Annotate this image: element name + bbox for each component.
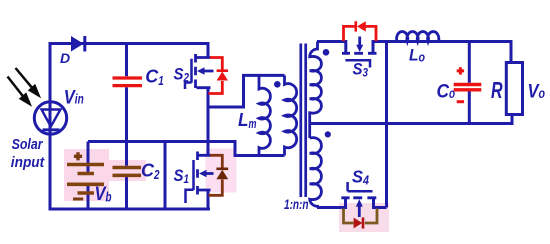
highlight behind battery Vb	[64, 149, 109, 201]
capacitor C2	[113, 142, 142, 210]
svg-text:Co: Co	[437, 82, 456, 103]
transistor S4	[317, 182, 387, 217]
wire: bottom rail	[49, 208, 211, 211]
polarity dot secondary bottom	[325, 131, 331, 137]
svg-text:1:n:n: 1:n:n	[284, 196, 309, 212]
wire: top output rail S3 to R	[373, 42, 511, 64]
transformer secondary bottom winding	[310, 138, 322, 208]
body diode of S4	[344, 209, 378, 229]
solar input arrows	[8, 68, 39, 104]
body diode of S2	[209, 58, 229, 94]
inductor Lo	[397, 32, 439, 42]
body diode of S3	[344, 21, 377, 41]
wire: switch node to primary top	[208, 75, 285, 107]
polarity dot primary	[274, 81, 281, 88]
wire: S3 source / S4 source vertical link	[385, 42, 388, 208]
svg-text:D: D	[60, 50, 70, 66]
wire: secondary top to S3 drain	[317, 42, 346, 53]
transformer core	[301, 44, 306, 198]
resistor R	[506, 63, 522, 115]
svg-text:S3: S3	[353, 60, 369, 80]
svg-text:Lo: Lo	[409, 46, 425, 65]
battery Vb	[67, 142, 104, 210]
svg-text:Vo: Vo	[528, 81, 546, 103]
capacitor C1	[113, 44, 143, 142]
svg-text:Vb: Vb	[95, 184, 112, 205]
wire: mid rail from battery to primary bottom	[88, 142, 285, 156]
svg-text:S1: S1	[174, 166, 190, 186]
body diode of S1	[209, 155, 229, 195]
solar cell symbol Vin	[34, 102, 66, 134]
highlight behind S4 body diode	[339, 203, 389, 232]
diode D	[71, 36, 85, 52]
highlight behind S1 body diode	[206, 149, 237, 193]
wire: S1 source drop	[207, 190, 210, 209]
svg-text:S4: S4	[352, 167, 369, 188]
transistor S3	[342, 37, 377, 68]
svg-text:input: input	[11, 154, 45, 171]
transformer secondary top winding	[310, 42, 322, 139]
svg-text:Solar: Solar	[12, 136, 44, 153]
svg-text:C2: C2	[141, 161, 160, 183]
transistor S1	[186, 152, 214, 204]
inductor Lm	[259, 75, 270, 155]
svg-text:Vin: Vin	[64, 88, 84, 109]
highlight behind capacitor C2	[108, 160, 146, 181]
svg-text:C1: C1	[145, 67, 164, 89]
svg-text:Lm: Lm	[238, 109, 257, 131]
svg-text:S2: S2	[174, 65, 190, 85]
wire: center tap rail to output return	[310, 115, 512, 124]
wire: S2 source to S1 drain vertical	[207, 88, 210, 155]
transistor S2	[185, 54, 214, 89]
transformer primary winding	[285, 75, 297, 155]
polarity dot secondary top	[323, 49, 330, 56]
wire: left input loop (top rail, left vertical, S2 drain drop)	[50, 44, 208, 210]
svg-text:R: R	[491, 77, 503, 103]
capacitor Co	[454, 42, 482, 124]
wire: vertical branch right of C2	[164, 142, 167, 210]
